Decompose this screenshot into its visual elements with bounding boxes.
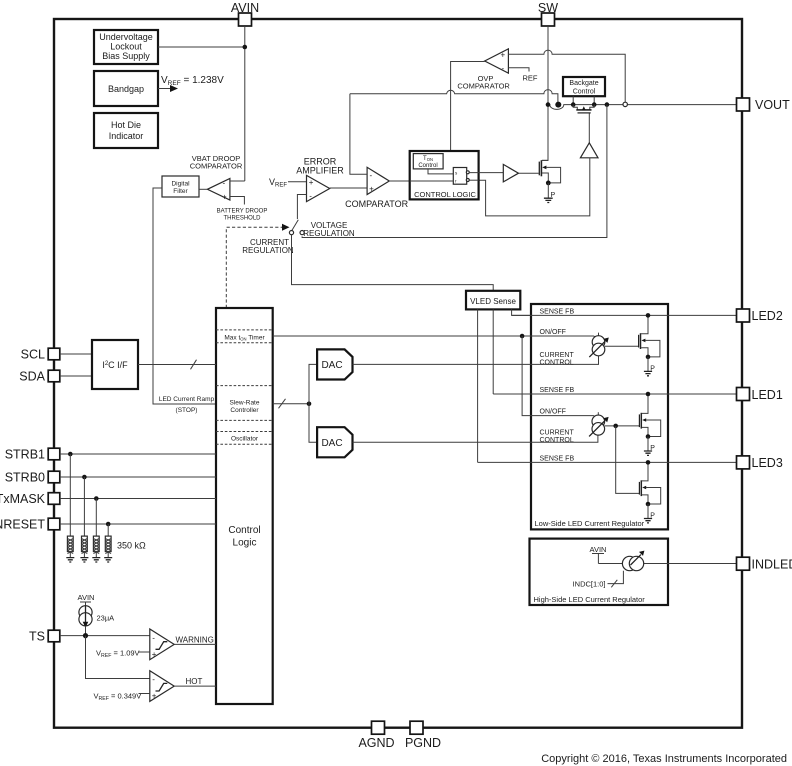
separator dashed slew-rate bottom xyxy=(216,419,273,421)
separator dashed oscillator top xyxy=(216,431,273,433)
wire to DAC2 input xyxy=(309,404,317,443)
block Hot Die Indicator xyxy=(94,113,158,148)
wire ON/OFF branch to ch-LED1 xyxy=(522,336,598,418)
svg-text:ON/OFF: ON/OFF xyxy=(540,329,566,336)
block Digital Filter xyxy=(162,176,199,197)
pin TxMASK xyxy=(0,492,60,506)
block Undervoltage Lockout Bias Supply xyxy=(94,30,158,64)
wire TxMASK to control logic xyxy=(60,498,216,500)
svg-text:SDA: SDA xyxy=(19,370,45,384)
svg-text:DAC: DAC xyxy=(321,360,342,371)
block Low-Side LED Current Regulator xyxy=(531,304,668,529)
pin STRB1 xyxy=(5,448,60,462)
node STRB0 resistor junction xyxy=(82,475,87,480)
svg-text:Logic: Logic xyxy=(233,538,257,549)
current source ch-LED2 xyxy=(589,333,609,357)
op-amp error amplifier xyxy=(307,175,330,201)
resistor R2 350k on STRB0 xyxy=(80,477,88,562)
node AVIN-UVLO junction xyxy=(243,45,248,50)
wire UVLO to AVIN net xyxy=(158,46,245,48)
wire STRB0 to control logic xyxy=(60,476,216,478)
svg-text:-: - xyxy=(152,675,155,684)
svg-text:P: P xyxy=(650,445,655,452)
pin STRB0 xyxy=(5,471,60,485)
comparator HOT xyxy=(150,671,174,702)
wire SCL to I2C IF xyxy=(60,353,92,355)
svg-text:SCL: SCL xyxy=(21,348,45,362)
node switch contact current-regulation xyxy=(289,231,293,235)
wire VBAT comp output to digital filter xyxy=(199,188,207,190)
wire VLED sense to LED3 sense line xyxy=(477,309,479,462)
node OVP tap open circle on VOUT line xyxy=(623,102,627,106)
svg-text:STRB1: STRB1 xyxy=(5,448,45,462)
svg-text:Lockout: Lockout xyxy=(110,42,142,52)
svg-text:SENSE FB: SENSE FB xyxy=(540,456,575,463)
node TS junction xyxy=(83,633,88,638)
pin PGND xyxy=(405,721,441,750)
svg-text:High-Side LED Current Regulato: High-Side LED Current Regulator xyxy=(534,595,646,604)
transistor NMOS LED1 xyxy=(639,392,660,439)
wire digital filter to LED current ramp (STOP) xyxy=(153,188,216,404)
wire SDA to I2C IF xyxy=(60,375,92,377)
svg-text:Indicator: Indicator xyxy=(109,131,144,141)
wire comparator input inside control logic xyxy=(410,180,454,182)
ground P-substrate below power NMOS xyxy=(544,183,556,203)
svg-text:Hot Die: Hot Die xyxy=(111,120,141,130)
wire VBAT comp minus input from AVIN xyxy=(230,180,245,182)
bus slash I2C xyxy=(191,360,197,370)
wire VLED sense to LED2 sense line xyxy=(512,309,531,315)
svg-text:AVIN: AVIN xyxy=(78,593,95,602)
pin AGND xyxy=(358,721,394,750)
wire TS node down to HOT comparator xyxy=(86,636,150,679)
svg-text:+: + xyxy=(369,184,374,193)
svg-text:Filter: Filter xyxy=(173,188,188,195)
wire flip-flop Qb to backgate loop xyxy=(469,179,478,181)
comparator PWM xyxy=(367,167,389,194)
svg-text:PGND: PGND xyxy=(405,736,441,750)
block DAC 2 xyxy=(317,427,352,457)
svg-text:LED3: LED3 xyxy=(752,456,783,470)
wire VREF 0.349 to HOT plus input xyxy=(139,693,150,695)
flip-flop latch xyxy=(453,168,469,185)
block DAC 1 xyxy=(317,349,352,379)
svg-text:+: + xyxy=(309,178,314,187)
block Control Logic (main digital) xyxy=(216,308,273,704)
svg-text:350 kΩ: 350 kΩ xyxy=(117,541,146,551)
svg-text:DAC: DAC xyxy=(321,438,342,449)
wire DAC1 output current control ch-LED2 xyxy=(353,356,599,365)
svg-text:BATTERY DROOP: BATTERY DROOP xyxy=(217,209,268,215)
node ON/OFF branch junction xyxy=(520,334,525,339)
wire current sense line across top (hops at x=450.6 and x=548) xyxy=(350,90,558,105)
svg-text:23µA: 23µA xyxy=(97,614,115,623)
svg-text:P: P xyxy=(551,192,556,199)
pin NRESET xyxy=(0,518,60,532)
pin SDA xyxy=(19,370,60,384)
wire high-side output to INDLED xyxy=(598,563,737,565)
svg-text:P: P xyxy=(650,513,655,520)
pin LED2 xyxy=(737,309,783,323)
block VLED Sense xyxy=(466,291,520,310)
wire SENSE FB line LED3 xyxy=(478,461,737,463)
svg-text:Digital: Digital xyxy=(171,181,190,188)
pin TS xyxy=(29,630,60,644)
node STRB1 resistor junction xyxy=(68,452,73,457)
svg-text:ON/OFF: ON/OFF xyxy=(540,409,566,416)
node backgate pin 1 xyxy=(571,102,576,107)
svg-text:LED2: LED2 xyxy=(752,309,783,323)
wire flip-flop Q to gate driver xyxy=(469,172,503,174)
svg-text:Undervoltage: Undervoltage xyxy=(99,32,153,42)
svg-text:Control: Control xyxy=(228,525,260,536)
svg-text:(STOP): (STOP) xyxy=(176,407,198,414)
svg-text:COMPARATOR: COMPARATOR xyxy=(457,82,510,91)
pin VOUT xyxy=(737,98,791,112)
svg-text:-: - xyxy=(223,178,226,187)
node switch contact voltage-regulation xyxy=(300,231,304,235)
svg-text:Controller: Controller xyxy=(230,407,259,414)
svg-text:REGULATION: REGULATION xyxy=(303,229,355,238)
resistor R3 350k on TxMASK xyxy=(92,499,100,563)
comparator OVP (points left) xyxy=(485,49,509,73)
wire shared gate down to NMOS LED3 xyxy=(616,426,640,494)
wire OVP REF input stub xyxy=(508,68,529,72)
separator dashed max ton timer bottom xyxy=(216,342,273,344)
wire dashed current-regulation select from control logic xyxy=(226,224,289,308)
svg-text:TxMASK: TxMASK xyxy=(0,492,46,506)
block tON Control xyxy=(413,154,443,169)
wire bandgap VREF output arrow xyxy=(158,85,178,92)
block CONTROL LOGIC (modulator) xyxy=(410,151,479,199)
svg-text:Copyright © 2016, Texas Instru: Copyright © 2016, Texas Instruments Inco… xyxy=(541,753,787,765)
buffer backgate gate driver (points up) xyxy=(580,143,598,158)
pin SW xyxy=(538,1,558,26)
wire STRB1 to control logic xyxy=(60,453,216,455)
svg-text:Slew-Rate: Slew-Rate xyxy=(230,400,260,407)
svg-text:SENSE FB: SENSE FB xyxy=(540,309,575,316)
wire VREF 1.09 to WARNING plus input xyxy=(139,651,150,653)
svg-text:+: + xyxy=(222,192,227,201)
wire slew-rate output bus to DACs xyxy=(273,403,309,405)
wire current regulation feedback to VLED sense xyxy=(292,235,494,291)
svg-text:TON: TON xyxy=(423,156,433,162)
svg-text:LED Current Ramp: LED Current Ramp xyxy=(159,396,215,403)
node current sense tap xyxy=(555,102,561,108)
wire comparator output to control logic xyxy=(389,180,453,182)
wire voltage regulation feedback from VOUT tap xyxy=(302,105,607,238)
block Bandgap xyxy=(94,71,158,106)
wire DAC2 output current control ch-LED1 xyxy=(353,435,598,443)
svg-text:INDC[1:0]: INDC[1:0] xyxy=(573,580,606,589)
svg-text:-: - xyxy=(502,64,505,73)
transistor backgate PMOS (horizontal) xyxy=(573,105,594,143)
svg-text:Control: Control xyxy=(573,89,596,96)
current source 23uA xyxy=(79,602,92,636)
transistor NMOS LED2 xyxy=(639,313,660,359)
block I2C IF xyxy=(92,340,138,389)
wire current source ch2 to NMOS gate xyxy=(605,345,639,347)
svg-text:SENSE FB: SENSE FB xyxy=(540,387,575,394)
buffer power FET gate driver xyxy=(503,164,518,182)
wire VLED sense to LED1 sense line xyxy=(492,309,494,394)
separator dashed oscillator bottom xyxy=(216,443,273,445)
switch regulation mode lever xyxy=(292,220,299,231)
svg-text:STRB0: STRB0 xyxy=(5,471,45,485)
comparator VBAT droop (points left) xyxy=(207,178,230,201)
ground P ch-LED2 xyxy=(644,357,655,376)
bus slash slew-rate xyxy=(279,399,286,409)
wire AVIN to high-side current source xyxy=(592,554,604,564)
wire tON control to flip-flop xyxy=(428,169,453,174)
wire WARNING output to control logic xyxy=(174,643,216,645)
svg-text:REGULATION: REGULATION xyxy=(242,246,294,255)
wire OVP plus input to VOUT tap (hop at SW) xyxy=(508,50,625,102)
svg-text:Control: Control xyxy=(418,163,437,169)
wire to DAC1 input xyxy=(309,364,317,403)
wire error amp output to comparator xyxy=(330,187,367,189)
resistor R4 350k on NRESET xyxy=(104,524,112,562)
svg-text:NRESET: NRESET xyxy=(0,518,45,532)
svg-text:INDLED: INDLED xyxy=(752,558,792,572)
svg-text:Low-Side LED Current Regulator: Low-Side LED Current Regulator xyxy=(535,519,645,528)
svg-text:CONTROL: CONTROL xyxy=(540,437,574,444)
bus slash INDC xyxy=(611,580,617,588)
svg-text:VOUT: VOUT xyxy=(755,98,790,112)
wire I2C IF to control logic bus xyxy=(138,364,216,366)
svg-text:COMPARATOR: COMPARATOR xyxy=(345,199,409,209)
svg-text:HOT: HOT xyxy=(186,677,203,686)
transistor power switch NMOS xyxy=(539,160,560,185)
block Backgate Control xyxy=(563,77,605,96)
svg-text:THRESHOLD: THRESHOLD xyxy=(223,216,261,222)
wire TS to comparators xyxy=(60,635,150,637)
svg-text:AVIN: AVIN xyxy=(590,545,607,554)
separator dashed max ton timer top xyxy=(216,329,273,331)
comparator WARNING xyxy=(150,629,174,660)
separator dashed slew-rate top xyxy=(216,385,273,387)
svg-text:AGND: AGND xyxy=(358,736,394,750)
svg-text:-: - xyxy=(370,171,373,180)
svg-text:TS: TS xyxy=(29,630,45,644)
svg-text:REF: REF xyxy=(523,74,538,83)
svg-text:CURRENT: CURRENT xyxy=(540,430,575,437)
svg-text:LED1: LED1 xyxy=(752,388,783,402)
pin LED1 xyxy=(737,388,783,403)
svg-text:-: - xyxy=(152,633,155,642)
svg-text:CURRENT: CURRENT xyxy=(540,352,575,359)
svg-text:P: P xyxy=(650,366,655,373)
wire gate driver output xyxy=(519,172,539,174)
node NRESET resistor junction xyxy=(106,522,111,527)
svg-text:WARNING: WARNING xyxy=(176,636,214,645)
resistor R1 350k on STRB1 xyxy=(66,454,74,562)
svg-text:Backgate: Backgate xyxy=(569,80,598,87)
wire AVIN net down xyxy=(244,26,246,181)
svg-text:AMPLIFIER: AMPLIFIER xyxy=(296,166,344,176)
svg-text:CONTROL LOGIC: CONTROL LOGIC xyxy=(414,190,476,199)
ground P ch-LED3 xyxy=(644,504,655,523)
transistor NMOS LED3 xyxy=(639,460,660,506)
svg-text:-: - xyxy=(309,191,312,200)
wire error amp minus input from regulation switch xyxy=(297,195,306,220)
wire OVP output to control logic top xyxy=(451,62,485,151)
wire ON/OFF line ch-LED2 from Max tON timer xyxy=(273,336,599,339)
wire SENSE FB line LED2 xyxy=(512,314,737,316)
svg-text:+: + xyxy=(152,692,157,701)
svg-text:Oscillator: Oscillator xyxy=(231,436,259,443)
pin SCL xyxy=(21,348,60,362)
wire SW net down to power NMOS drain xyxy=(542,26,548,160)
svg-text:Bias Supply: Bias Supply xyxy=(102,51,150,61)
node SW-VOUT junction xyxy=(546,102,551,107)
svg-text:Bandgap: Bandgap xyxy=(108,84,144,94)
current source ch-LED1 xyxy=(589,412,609,436)
svg-text:CONTROL: CONTROL xyxy=(540,360,574,367)
node DAC branch junction xyxy=(307,402,312,407)
wire current source ch1 to NMOS gates xyxy=(605,425,640,427)
svg-text:+: + xyxy=(501,50,506,59)
wire INDC control to current source xyxy=(608,571,624,584)
svg-text:COMPARATOR: COMPARATOR xyxy=(190,162,243,171)
wire VOUT line with hop arc after SW junction xyxy=(548,105,737,110)
pin AVIN xyxy=(231,1,259,26)
node shared gate junction ch1-ch3 xyxy=(613,424,618,429)
pin LED3 xyxy=(737,456,783,470)
node backgate pin 2 xyxy=(592,102,597,107)
node voltage regulation tap xyxy=(605,102,610,107)
block High-Side LED Current Regulator xyxy=(530,539,669,605)
wire comparator minus input to current sense line xyxy=(350,94,367,175)
current source high-side (horizontal pair) xyxy=(622,551,644,571)
wire SENSE FB line LED1 xyxy=(493,393,737,395)
svg-text:+: + xyxy=(152,650,157,659)
wire VREF to error amp xyxy=(288,181,307,183)
svg-text:VLED Sense: VLED Sense xyxy=(470,297,516,306)
node TxMASK resistor junction xyxy=(94,496,99,501)
svg-text:Max tON Timer: Max tON Timer xyxy=(224,334,265,341)
wire backgate control pins to VOUT line xyxy=(573,96,594,104)
ground P ch-LED1 xyxy=(644,437,655,456)
wire VBAT comp plus input stub BATTERY DROOP THRESHOLD xyxy=(230,197,245,205)
wire NRESET to control logic xyxy=(60,523,216,525)
wire backgate driver input loop from control logic xyxy=(479,158,590,216)
pin INDLED xyxy=(737,557,792,571)
wire HOT output to control logic xyxy=(174,685,216,687)
